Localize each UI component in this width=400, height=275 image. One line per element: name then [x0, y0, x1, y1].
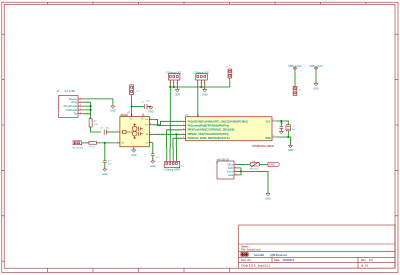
- svg-text:3: 3: [80, 105, 81, 107]
- svg-text:6: 6: [132, 115, 133, 117]
- svg-text:1: 1: [80, 98, 81, 100]
- svg-text:Data: Data: [228, 174, 234, 177]
- svg-text:PD4(Tim2/AIN2)/CCO/PB4(I2C_SDA: PD4(Tim2/AIN2)/CCO/PB4(I2C_SDA)(AIN): [188, 129, 235, 132]
- svg-text:6: 6: [183, 137, 184, 139]
- svg-text:J?: J?: [137, 91, 140, 93]
- svg-text:GND: GND: [202, 93, 208, 96]
- svg-text:R? 1k: R? 1k: [90, 147, 95, 149]
- svg-text:2020/5/24: 2020/5/24: [283, 258, 295, 262]
- svg-text:VO2: VO2: [145, 125, 149, 127]
- svg-text:GND: GND: [102, 173, 108, 176]
- svg-text:4: 4: [117, 130, 118, 132]
- svg-text:5: 5: [150, 118, 151, 120]
- svg-text:1: 1: [235, 163, 236, 165]
- svg-text:GND: GND: [131, 154, 137, 157]
- svg-text:2: 2: [235, 167, 236, 169]
- svg-text:PA3(Tim2_3)/SPI_NSS/Tim(PC5/CL: PA3(Tim2_3)/SPI_NSS/Tim(PC5/CLK): [188, 137, 230, 140]
- svg-text:1: 1: [183, 120, 184, 122]
- svg-text:Size: A4: Size: A4: [241, 258, 251, 262]
- svg-text:3: 3: [183, 128, 184, 130]
- svg-text:VCC: VCC: [266, 121, 271, 123]
- svg-text:3: 3: [117, 141, 118, 143]
- svg-text:5: 5: [80, 112, 81, 114]
- svg-text:PB5(I2C_SDA)/Tim1(OSCOUT)(PC3): PB5(I2C_SDA)/Tim1(OSCOUT)(PC3): [188, 133, 229, 136]
- svg-text:Id: 1/1: Id: 1/1: [361, 263, 369, 267]
- svg-text:PTCfuse: PTCfuse: [250, 169, 259, 171]
- svg-text:GND: GND: [265, 138, 270, 140]
- svg-text::: :: [249, 254, 250, 257]
- svg-text:PWR_FLAG: PWR_FLAG: [309, 65, 322, 68]
- svg-text:1: 1: [150, 141, 151, 143]
- svg-text:104: 104: [146, 100, 150, 102]
- svg-text:8: 8: [150, 123, 151, 125]
- svg-text:C?: C?: [292, 126, 295, 128]
- svg-text:9: 9: [198, 115, 199, 117]
- svg-text:PWR_FLAG: PWR_FLAG: [288, 65, 301, 68]
- svg-text:10u: 10u: [108, 164, 111, 166]
- svg-text:C?: C?: [100, 128, 104, 130]
- svg-text:J1: J1: [57, 89, 60, 93]
- svg-text:GND: GND: [150, 165, 156, 168]
- svg-text:J?: J?: [181, 166, 184, 168]
- svg-text:U?: U?: [185, 114, 189, 117]
- svg-text:KiCad E.D.A. kicad 5.0.0: KiCad E.D.A. kicad 5.0.0: [241, 263, 271, 267]
- svg-text:VO1: VO1: [145, 119, 149, 121]
- svg-text:2: 2: [80, 101, 81, 103]
- svg-text:Rev:: Rev:: [361, 258, 367, 262]
- svg-text:2.2k: 2.2k: [94, 124, 99, 126]
- svg-text:PD1(swim)/Rx(BEEP/AIN3)(PD6/Ti: PD1(swim)/Rx(BEEP/AIN3)(PD6/Tim): [188, 125, 229, 128]
- svg-text:GND: GND: [175, 93, 181, 96]
- svg-text:J?: J?: [299, 90, 302, 92]
- svg-text:2: 2: [183, 124, 184, 126]
- svg-text:5: 5: [183, 133, 184, 135]
- svg-text:Vterm: Vterm: [227, 170, 233, 173]
- svg-text:7: 7: [144, 115, 145, 117]
- svg-text:Tip: Tip: [73, 112, 77, 116]
- svg-text:GND: GND: [148, 110, 154, 113]
- svg-text:C?: C?: [108, 161, 111, 163]
- svg-text:3: 3: [235, 170, 236, 172]
- svg-text:STM8S003-20PIN: STM8S003-20PIN: [252, 144, 274, 148]
- svg-text:J?: J?: [226, 67, 229, 69]
- svg-text:VBus: VBus: [228, 164, 234, 166]
- svg-text:8: 8: [273, 136, 274, 138]
- svg-text:2: 2: [150, 133, 151, 135]
- svg-text:R?: R?: [94, 121, 98, 123]
- svg-text:SoundID: SoundID: [254, 253, 264, 257]
- svg-text:GND: GND: [228, 168, 233, 170]
- svg-text:MicroPhone: MicroPhone: [73, 148, 85, 150]
- svg-text:4: 4: [80, 109, 81, 111]
- svg-text:47u: 47u: [106, 128, 110, 130]
- svg-text:GND: GND: [110, 110, 116, 113]
- svg-text:3V3: 3V3: [280, 123, 284, 125]
- svg-text:GND: GND: [265, 197, 271, 200]
- svg-text:Date:: Date:: [274, 258, 280, 262]
- svg-text:J?: J?: [216, 162, 219, 164]
- svg-text:C-Debug-UART: C-Debug-UART: [164, 169, 181, 172]
- svg-text:4: 4: [235, 174, 236, 176]
- svg-text:GND: GND: [288, 149, 294, 152]
- svg-text:CHG: CHG: [269, 163, 275, 167]
- svg-text:0.9: 0.9: [369, 258, 373, 262]
- svg-text:7: 7: [273, 120, 274, 122]
- svg-text:GND: GND: [313, 87, 319, 90]
- svg-text:10u: 10u: [292, 129, 295, 131]
- svg-text:4.7u: 4.7u: [155, 157, 159, 159]
- svg-text:[c]514hmemux: [c]514hmemux: [270, 253, 288, 257]
- svg-text:C?: C?: [142, 102, 145, 104]
- svg-text:PA1(OSCIN)/Tx/AIN4/UART1_CK(CC: PA1(OSCIN)/Tx/AIN4/UART1_CK(CCO/AIN2)/PC…: [188, 120, 248, 123]
- svg-text:File: Sound2.sch: File: Sound2.sch: [241, 248, 261, 252]
- svg-text:AJ-1780: AJ-1780: [65, 89, 76, 93]
